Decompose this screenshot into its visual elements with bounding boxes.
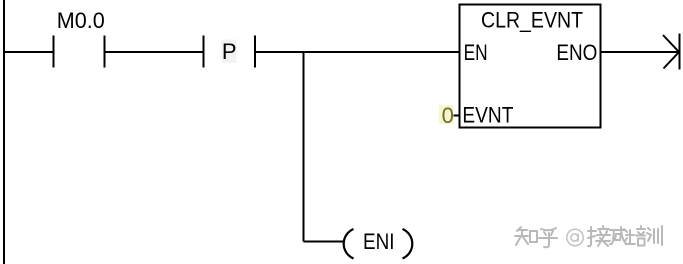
svg-text:P: P <box>222 39 237 64</box>
svg-text:EN: EN <box>464 40 488 65</box>
svg-text:EVNT: EVNT <box>462 103 513 128</box>
svg-text:ENI: ENI <box>363 229 395 254</box>
svg-text:ENO: ENO <box>556 40 597 65</box>
svg-text:M0.0: M0.0 <box>57 8 105 33</box>
svg-text:0: 0 <box>442 103 454 128</box>
svg-text:CLR_EVNT: CLR_EVNT <box>481 7 583 32</box>
